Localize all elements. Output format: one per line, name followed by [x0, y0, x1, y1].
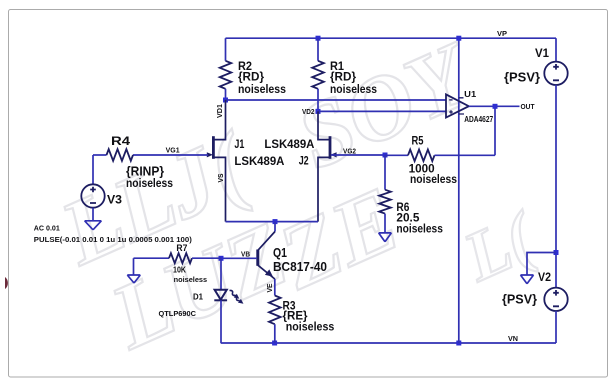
svg-text:VG1: VG1	[166, 145, 180, 154]
wire VG2 gate to R5/R6 node	[331, 154, 385, 156]
svg-text:ADA4627: ADA4627	[464, 114, 493, 124]
svg-text:V3: V3	[107, 193, 122, 207]
svg-text:V1: V1	[535, 46, 549, 60]
svg-text:{PSV}: {PSV}	[502, 293, 537, 307]
voltage source V1	[544, 62, 567, 85]
wire feedback OUT to R5	[494, 106, 496, 155]
junction source bus to Q1	[273, 219, 278, 224]
junction R3 on VN	[272, 341, 277, 346]
resistor R6	[379, 155, 391, 233]
resistor R4	[93, 149, 133, 161]
junction R1 on VP	[316, 36, 321, 41]
svg-text:J1: J1	[234, 137, 244, 151]
wire opamp supply vertical	[458, 38, 460, 343]
wire VD1 to opamp inverting input	[226, 99, 447, 101]
wire Q1 base VB	[221, 257, 257, 259]
resistor R3	[269, 296, 281, 344]
junction node OUT	[493, 104, 498, 109]
LED D1	[214, 258, 244, 343]
svg-text:VS: VS	[216, 174, 225, 183]
junction VP supply	[456, 36, 461, 41]
junction node VG2	[383, 153, 388, 158]
op-amp U1	[446, 94, 469, 117]
transistor Q1	[258, 222, 275, 296]
junction V2 branch	[554, 250, 559, 255]
svg-text:PULSE(-0.01 0.01 0 1u 1u 0.000: PULSE(-0.01 0.01 0 1u 1u 0.0005 0.001 10…	[34, 237, 192, 244]
junction node VD1	[223, 98, 228, 103]
svg-text:R5: R5	[412, 134, 424, 148]
wire VP rail	[226, 37, 557, 39]
svg-text:D1: D1	[193, 292, 203, 302]
svg-text:R7: R7	[176, 243, 187, 253]
wire VN rail	[221, 342, 556, 344]
resistor R2	[220, 38, 232, 100]
ground at R6	[379, 233, 392, 242]
resistor R7	[134, 253, 222, 263]
JFET J2	[318, 111, 337, 221]
svg-text:OUT: OUT	[521, 102, 535, 111]
resistor R5	[385, 150, 495, 162]
svg-text:U1: U1	[464, 89, 476, 99]
wire source bus VS	[226, 221, 319, 223]
svg-text:J2: J2	[299, 153, 309, 167]
svg-text:Q1: Q1	[273, 246, 287, 260]
svg-text:noiseless: noiseless	[126, 176, 173, 190]
svg-text:VB: VB	[241, 249, 251, 258]
resistor R1	[312, 38, 324, 111]
svg-text:QTLP690C: QTLP690C	[159, 311, 197, 318]
wire V1 bottom to V2 top	[555, 85, 557, 288]
svg-text:AC 0.01: AC 0.01	[34, 226, 60, 233]
svg-text:LSK489A: LSK489A	[264, 137, 314, 151]
junction opamp V- on VN	[456, 341, 461, 346]
svg-text:10K: 10K	[173, 266, 186, 275]
svg-text:noiseless: noiseless	[174, 275, 208, 284]
svg-text:BC817-40: BC817-40	[273, 260, 327, 274]
voltage source V2	[544, 288, 567, 311]
svg-text:noiseless: noiseless	[396, 222, 443, 236]
svg-text:VE: VE	[265, 284, 274, 293]
wire R7 ground lead	[133, 258, 135, 275]
junction node VB	[219, 256, 224, 261]
voltage source V3	[81, 155, 104, 221]
junction node VD2	[316, 109, 321, 114]
svg-text:noiseless: noiseless	[238, 82, 286, 96]
svg-text:VP: VP	[497, 29, 507, 38]
svg-text:LSK489A: LSK489A	[234, 154, 284, 168]
ground at V2	[521, 275, 534, 284]
wire opamp output	[469, 105, 520, 107]
wire V1 top lead	[555, 38, 557, 61]
svg-text:VN: VN	[508, 334, 518, 343]
svg-text:VG2: VG2	[343, 147, 356, 156]
svg-text:VD1: VD1	[215, 104, 224, 118]
svg-text:V2: V2	[538, 270, 551, 284]
wire V2 bottom lead	[555, 311, 557, 343]
wire VD2 to opamp non-inverting input	[318, 110, 446, 112]
wire VG1 gate	[133, 154, 208, 156]
svg-text:R4: R4	[111, 134, 130, 148]
svg-text:noiseless: noiseless	[286, 319, 335, 333]
WATERMARK	[5, 21, 549, 368]
svg-text:VD2: VD2	[302, 107, 315, 116]
wire V2 ground branch	[527, 253, 556, 276]
svg-text:noiseless: noiseless	[330, 82, 377, 96]
JFET J1	[207, 100, 226, 222]
svg-text:noiseless: noiseless	[410, 174, 457, 186]
ground at V3	[85, 221, 102, 230]
ground at R7	[127, 275, 140, 283]
svg-text:{PSV}: {PSV}	[504, 70, 540, 84]
